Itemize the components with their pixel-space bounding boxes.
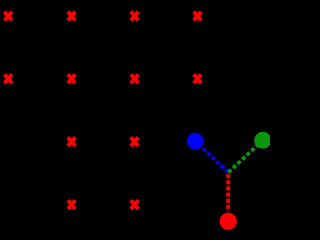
lattice point X r2c2 — [68, 74, 75, 83]
red atom — [220, 213, 237, 230]
blue atom — [187, 133, 204, 150]
lattice point X r1c2 — [68, 12, 75, 21]
lattice point X r4c2 — [68, 200, 75, 209]
lattice point X r1c1 — [5, 12, 12, 21]
dotted bond red: junction to red atom — [226, 174, 230, 211]
dotted bond blue: junction to blue atom — [195, 141, 228, 172]
lattice point X r1c3 — [131, 12, 138, 21]
lattice point X r1c4 — [194, 12, 201, 21]
lattice point X r3c2 — [68, 137, 75, 146]
lattice point X r2c1 — [5, 74, 12, 83]
green atom — [254, 132, 271, 149]
lattice point X r2c3 — [131, 74, 138, 83]
dotted bond green: junction to green atom — [228, 140, 262, 172]
lattice point X r2c4 — [194, 74, 201, 83]
lattice point X r3c3 — [131, 137, 138, 146]
lattice point X r4c3 — [131, 200, 138, 209]
